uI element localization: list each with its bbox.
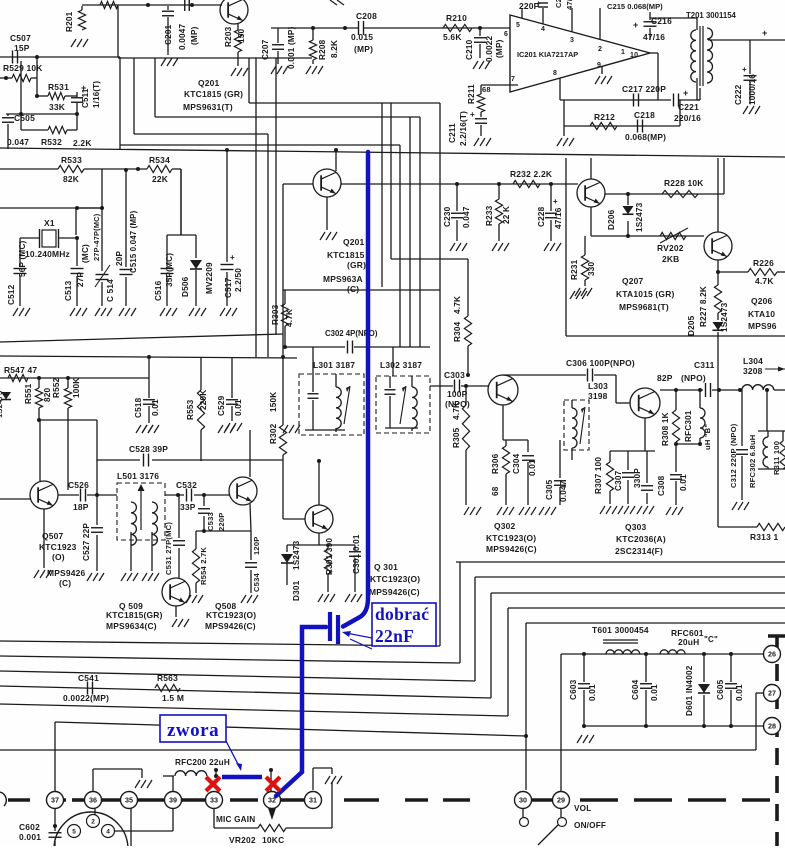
svg-text:L302 3187: L302 3187 [380,360,422,370]
svg-text:3: 3 [570,37,574,44]
svg-text:C505: C505 [14,113,35,123]
svg-text:R547 47: R547 47 [4,365,37,375]
svg-text:C301 0.01: C301 0.01 [352,534,361,574]
svg-text:C518: C518 [134,397,143,418]
svg-text:Q507: Q507 [42,531,64,541]
svg-text:D506: D506 [181,276,190,297]
svg-text:(O): (O) [52,552,65,562]
svg-text:+: + [633,20,638,30]
svg-text:35: 35 [125,796,133,805]
svg-text:(GR): (GR) [347,260,366,270]
svg-text:ON/OFF: ON/OFF [574,821,606,830]
svg-text:R211: R211 [467,84,476,104]
svg-text:330P: 330P [633,468,642,488]
svg-text:29: 29 [557,796,565,805]
svg-text:2.2/16(T): 2.2/16(T) [459,111,468,146]
svg-text:C513: C513 [64,280,73,301]
svg-text:C 514: C 514 [106,279,115,302]
svg-text:zwora: zwora [167,720,219,741]
svg-text:33K: 33K [49,102,66,112]
svg-text:2.2/50: 2.2/50 [234,268,243,292]
svg-text:0.068(MP): 0.068(MP) [625,132,666,142]
svg-text:0.047: 0.047 [462,206,471,228]
svg-text:L304: L304 [743,356,763,366]
svg-text:+: + [536,0,541,8]
svg-text:+: + [470,110,475,119]
svg-text:330: 330 [587,261,596,276]
svg-text:RV202: RV202 [657,243,684,253]
svg-text:0.047: 0.047 [7,137,29,147]
svg-text:C228: C228 [537,206,546,227]
svg-text:10: 10 [630,52,638,59]
svg-text:15P: 15P [14,43,30,53]
svg-text:27P: 27P [76,271,85,287]
svg-text:X1: X1 [44,218,55,228]
svg-text:C528 39P: C528 39P [129,444,168,454]
svg-text:RFC302 6.8uH: RFC302 6.8uH [748,435,757,488]
svg-text:36: 36 [89,796,97,805]
svg-text:C218: C218 [634,110,655,120]
svg-text:R231: R231 [570,259,579,280]
svg-text:C222: C222 [734,84,743,105]
svg-text:(MP): (MP) [354,44,373,54]
svg-text:1S2473: 1S2473 [292,540,301,570]
svg-text:Q302: Q302 [494,521,516,531]
svg-text:D601 IN4002: D601 IN4002 [685,665,694,716]
svg-text:22K: 22K [152,174,169,184]
svg-text:C541: C541 [78,673,99,683]
svg-text:C221: C221 [678,102,699,112]
svg-text:8.2K: 8.2K [330,40,339,58]
svg-text:MPS9426(C): MPS9426(C) [369,587,420,597]
svg-text:0.015: 0.015 [351,32,373,42]
svg-text:1: 1 [621,49,625,56]
svg-text:R553: R553 [186,399,195,420]
svg-text:68: 68 [491,486,500,496]
svg-text:(C): (C) [347,284,359,294]
svg-text:R551: R551 [24,383,33,404]
svg-text:C207: C207 [261,39,270,60]
svg-text:1000/16: 1000/16 [748,74,757,105]
svg-text:2: 2 [598,46,602,53]
svg-text:(MC): (MC) [81,244,90,263]
svg-text:4.7K: 4.7K [285,309,294,327]
svg-text:28: 28 [768,722,776,731]
svg-text:MPS9426(C): MPS9426(C) [486,544,537,554]
svg-text:0.001 (MP): 0.001 (MP) [287,26,296,69]
svg-text:33: 33 [210,796,218,805]
svg-text:C516: C516 [154,280,163,301]
svg-text:100P: 100P [447,389,468,399]
svg-text:C531 27P(MC): C531 27P(MC) [164,522,173,575]
svg-text:10KC: 10KC [262,835,284,845]
svg-text:R313 1: R313 1 [750,532,779,542]
svg-text:7: 7 [511,76,515,83]
svg-text:L301 3187: L301 3187 [313,360,355,370]
svg-text:0.0022: 0.0022 [485,36,494,62]
svg-text:IC201 KIA7217AP: IC201 KIA7217AP [517,50,578,59]
svg-text:82P: 82P [657,373,673,383]
svg-text:MPS9634(C): MPS9634(C) [106,621,157,631]
svg-text:R303: R303 [271,304,280,325]
svg-text:6: 6 [504,31,508,38]
svg-text:C312 220P (NPO): C312 220P (NPO) [729,423,738,488]
svg-text:C603: C603 [569,679,578,700]
svg-text:C511: C511 [81,88,90,108]
svg-text:C529: C529 [217,395,226,416]
svg-text:Q201: Q201 [343,237,365,247]
svg-text:MV2209: MV2209 [205,262,214,294]
svg-text:KTC1815 (GR): KTC1815 (GR) [184,89,243,99]
svg-text:0.01: 0.01 [679,474,688,491]
svg-text:4: 4 [106,829,110,836]
svg-text:47/16: 47/16 [643,32,665,42]
svg-text:18P: 18P [73,502,89,512]
svg-text:C308: C308 [657,475,666,496]
svg-text:39: 39 [169,796,177,805]
svg-text:KTC1815: KTC1815 [327,250,365,260]
svg-text:(MP): (MP) [495,39,504,58]
svg-text:1/16(T): 1/16(T) [92,81,101,108]
svg-text:C217 220P: C217 220P [622,84,666,94]
svg-text:KTC1815(GR): KTC1815(GR) [106,610,163,620]
svg-text:R305: R305 [452,427,461,448]
svg-text:KTC1923(O): KTC1923(O) [206,610,256,620]
svg-text:R304: R304 [453,321,462,342]
svg-text:37: 37 [51,796,59,805]
svg-text:0.001: 0.001 [19,832,41,842]
svg-text:R226: R226 [753,258,774,268]
svg-text:1S2473: 1S2473 [720,302,729,332]
svg-text:C2: C2 [554,0,563,8]
svg-text:R227 8.2K: R227 8.2K [699,286,708,327]
svg-text:RFC301: RFC301 [684,410,693,442]
svg-text:120P: 120P [252,536,261,555]
svg-text:R306: R306 [491,453,500,474]
svg-text:2KB: 2KB [662,254,679,264]
svg-text:C604: C604 [631,679,640,700]
svg-text:22nF: 22nF [375,626,414,646]
svg-text:20P: 20P [115,250,124,266]
svg-text:VR202: VR202 [229,835,256,845]
svg-text:820: 820 [43,387,52,402]
svg-text:10.240MHz: 10.240MHz [25,249,70,259]
svg-text:+: + [553,197,558,206]
svg-text:C311: C311 [694,360,715,370]
svg-text:MIC GAIN: MIC GAIN [216,815,255,824]
svg-text:C602: C602 [19,822,40,832]
svg-text:2SC2314(F): 2SC2314(F) [615,546,663,556]
svg-text:MPS9681(T): MPS9681(T) [619,302,669,312]
svg-text:C210: C210 [465,39,474,60]
svg-text:4.7K: 4.7K [452,402,461,420]
svg-text:KTC2036(A): KTC2036(A) [616,534,666,544]
svg-text:C230: C230 [443,206,452,227]
svg-text:+: + [742,65,747,74]
svg-text:KTC1923(O): KTC1923(O) [486,533,536,543]
svg-text:C306 100P(NPO): C306 100P(NPO) [566,358,635,368]
svg-text:uH "B": uH "B" [703,424,712,450]
svg-text:82K: 82K [63,174,80,184]
svg-text:0.01: 0.01 [588,684,597,701]
svg-text:C507: C507 [10,33,31,43]
svg-text:33P: 33P [180,502,196,512]
svg-text:dobrać: dobrać [375,604,429,624]
svg-text:5: 5 [72,829,76,836]
svg-text:D205: D205 [687,315,696,336]
svg-text:R302: R302 [269,423,278,444]
svg-text:C303: C303 [444,370,465,380]
svg-text:R532: R532 [41,137,62,147]
svg-text:D301: D301 [292,580,301,601]
svg-text:R534: R534 [149,155,170,165]
svg-text:0.047: 0.047 [559,480,568,502]
svg-text:R554 2.7K: R554 2.7K [199,547,208,585]
svg-text:R208: R208 [318,39,327,60]
svg-text:150K: 150K [269,392,278,412]
svg-text:C305: C305 [545,479,554,500]
svg-text:Q 301: Q 301 [374,562,398,572]
svg-text:2: 2 [91,819,95,826]
svg-text:C201: C201 [164,24,173,45]
svg-text:L501 3176: L501 3176 [117,471,159,481]
svg-text:(NPO): (NPO) [681,373,706,383]
svg-text:R529 10K: R529 10K [3,63,43,73]
svg-text:C526: C526 [68,480,89,490]
svg-text:D206: D206 [607,209,616,230]
svg-text:8: 8 [553,70,557,77]
svg-text:R552: R552 [52,377,61,398]
svg-text:Q207: Q207 [622,276,644,286]
svg-text:C515 0.047 (MP): C515 0.047 (MP) [129,210,138,273]
svg-text:(C): (C) [59,578,71,588]
svg-text:RFC200 22uH: RFC200 22uH [175,758,230,767]
svg-text:27P-47P(MC): 27P-47P(MC) [92,213,101,261]
svg-text:C534: C534 [252,572,261,592]
svg-text:1S2473: 1S2473 [635,202,644,232]
svg-text:0.01: 0.01 [234,399,243,416]
svg-text:R212: R212 [594,112,615,122]
svg-text:R308 1K: R308 1K [661,412,670,446]
svg-text:VOL: VOL [574,804,591,813]
svg-text:MPS9631(T): MPS9631(T) [183,102,233,112]
svg-text:2.2K: 2.2K [73,138,92,148]
svg-text:0.01: 0.01 [528,459,537,476]
svg-text:220K: 220K [199,390,208,410]
svg-text:MPS9426: MPS9426 [47,568,86,578]
svg-text:+: + [683,88,688,98]
svg-text:C211: C211 [448,123,457,143]
svg-text:R228 10K: R228 10K [664,178,704,188]
svg-text:C517: C517 [224,277,233,298]
svg-text:C307: C307 [614,470,623,491]
svg-text:5: 5 [516,22,520,29]
svg-text:+: + [230,253,235,262]
svg-text:+: + [762,28,767,38]
svg-text:C304: C304 [512,453,521,474]
svg-text:R232 2.2K: R232 2.2K [510,169,553,179]
svg-text:Q303: Q303 [625,522,647,532]
svg-text:MPS96: MPS96 [748,321,777,331]
svg-text:20uH: 20uH [678,637,699,647]
svg-text:(MP): (MP) [190,26,199,45]
svg-text:220P: 220P [217,512,226,531]
svg-text:R307 100: R307 100 [594,457,603,494]
svg-text:3208: 3208 [743,366,763,376]
svg-text:C533: C533 [206,512,215,531]
svg-text:R203: R203 [224,26,233,47]
svg-text:0.0047: 0.0047 [178,24,187,50]
svg-text:0.0022(MP): 0.0022(MP) [63,693,109,703]
svg-text:4: 4 [541,26,545,33]
svg-text:R563: R563 [157,673,178,683]
svg-text:150: 150 [237,28,246,43]
svg-text:47/16: 47/16 [554,207,563,229]
svg-text:"C": "C" [704,635,718,644]
svg-text:3198: 3198 [588,391,608,401]
svg-text:C527 22P: C527 22P [82,523,91,561]
svg-text:1S2473: 1S2473 [0,391,4,418]
svg-text:5.6K: 5.6K [443,32,462,42]
svg-text:R301 390: R301 390 [325,538,334,575]
svg-text:100K: 100K [72,378,81,398]
svg-text:35P(MC): 35P(MC) [165,253,174,287]
svg-text:26: 26 [768,650,776,659]
svg-text:4.7K: 4.7K [453,296,462,314]
svg-text:C512: C512 [7,284,16,305]
svg-text:MPS9426(C): MPS9426(C) [205,621,256,631]
svg-text:220/16: 220/16 [674,113,701,123]
svg-text:R233: R233 [485,205,494,226]
svg-text:47/: 47/ [565,0,574,10]
svg-text:KTC1923(O): KTC1923(O) [370,574,420,584]
svg-text:56P (MC): 56P (MC) [18,240,27,277]
svg-text:31: 31 [309,796,317,805]
svg-text:68: 68 [482,85,491,94]
svg-text:C215 0.068(MP): C215 0.068(MP) [607,2,663,11]
svg-text:L303: L303 [588,381,608,391]
svg-text:KTA10: KTA10 [748,309,775,319]
svg-text:Q206: Q206 [751,296,773,306]
svg-text:0.01: 0.01 [151,399,160,416]
svg-text:MPS963A: MPS963A [323,274,363,284]
svg-text:Q201: Q201 [198,78,220,88]
svg-text:4.7K: 4.7K [755,276,774,286]
svg-text:R201: R201 [65,11,74,32]
svg-text:KTA1015 (GR): KTA1015 (GR) [616,289,675,299]
svg-text:C208: C208 [356,11,377,21]
svg-text:0.01: 0.01 [650,684,659,701]
svg-text:27: 27 [768,689,776,698]
svg-text:R210: R210 [446,13,467,23]
svg-text:22 K: 22 K [502,206,511,224]
svg-text:R531: R531 [48,82,69,92]
svg-text:C532: C532 [176,480,197,490]
svg-text:1.5 M: 1.5 M [162,693,184,703]
svg-text:30: 30 [519,796,527,805]
svg-text:R533: R533 [61,155,82,165]
svg-text:0.01: 0.01 [735,684,744,701]
svg-text:9: 9 [597,62,601,69]
svg-text:R311 100: R311 100 [772,441,781,475]
svg-text:C605: C605 [716,679,725,700]
svg-text:T601 3000454: T601 3000454 [592,625,649,635]
